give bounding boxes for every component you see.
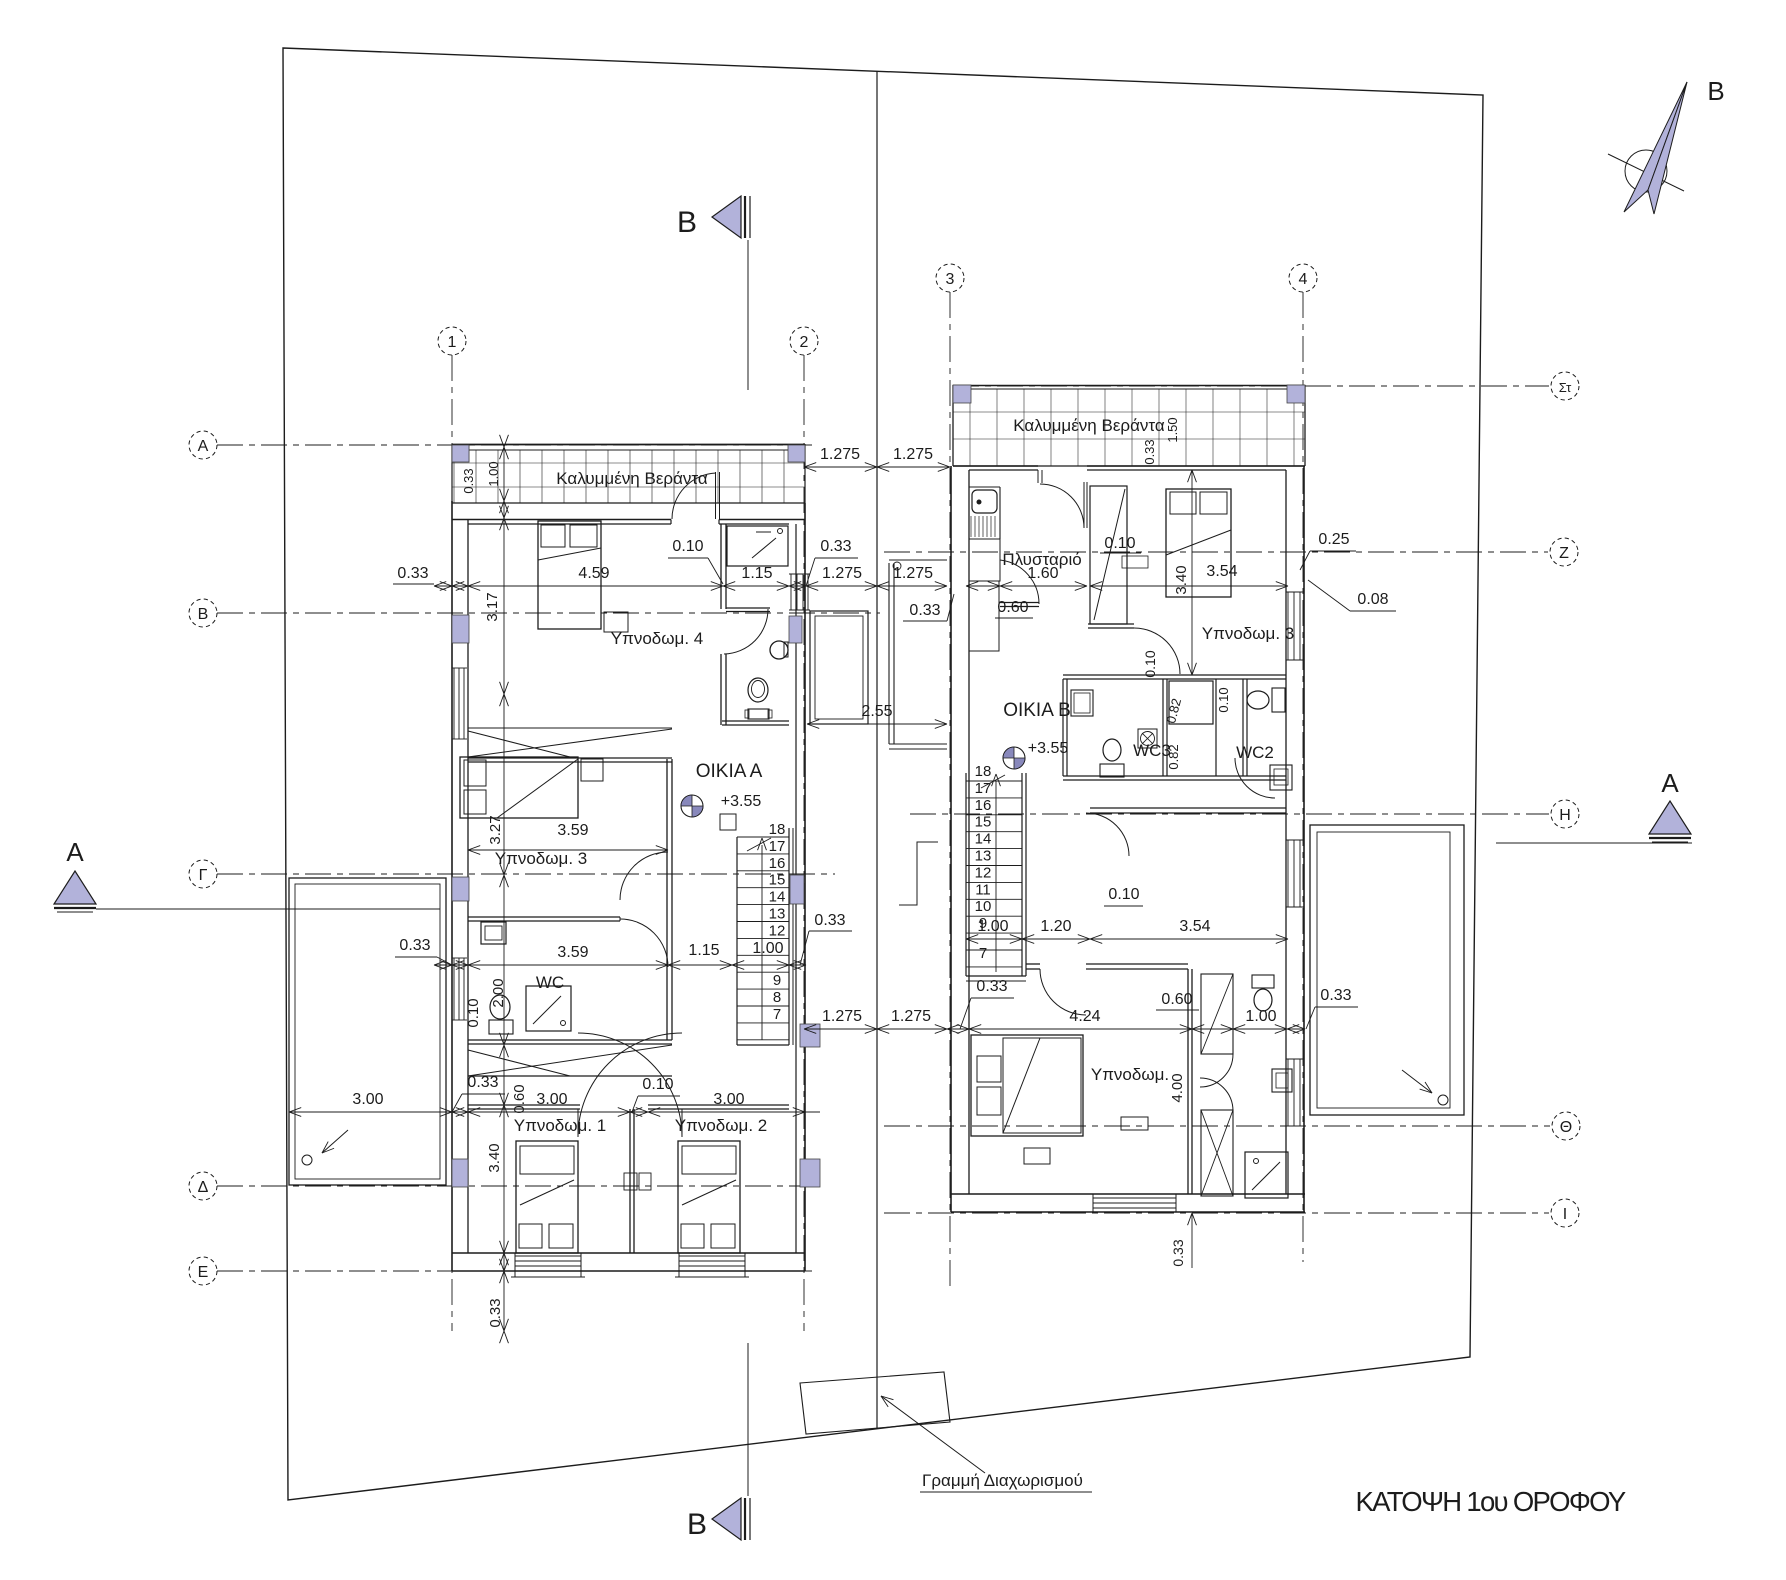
grid line ST horizontal — [953, 385, 1549, 387]
svg-text:Υπνοδωμ. 1: Υπνοδωμ. 1 — [514, 1116, 606, 1135]
svg-text:0.33: 0.33 — [814, 912, 845, 929]
svg-text:1.15: 1.15 — [741, 565, 772, 582]
svg-text:0.60: 0.60 — [511, 1084, 528, 1113]
wc A north wall + door — [468, 916, 620, 918]
grid bubble 3 — [936, 264, 964, 292]
svg-text:Καλυμμένη Βεράντα: Καλυμμένη Βεράντα — [1013, 416, 1165, 435]
sink bath A — [770, 641, 788, 659]
svg-text:Β: Β — [198, 606, 209, 623]
svg-text:7: 7 — [979, 945, 987, 962]
grid line 3 vertical — [949, 292, 951, 1290]
stairs B arrow — [995, 781, 997, 972]
svg-text:0.10: 0.10 — [672, 538, 703, 555]
svg-text:13: 13 — [769, 906, 786, 923]
wardrobe hall B — [1090, 486, 1127, 624]
svg-text:2.00: 2.00 — [490, 978, 507, 1007]
dim row gap mid 1.275+1.275 — [806, 585, 947, 587]
sink WC3 — [1071, 690, 1093, 716]
grid bubble E — [189, 1257, 217, 1285]
column A veranda left — [452, 445, 469, 462]
svg-text:Υπνοδωμ. 2: Υπνοδωμ. 2 — [675, 1116, 767, 1135]
svg-text:Υπνοδωμ. 4: Υπνοδωμ. 4 — [611, 629, 703, 648]
hall A wall above rooms 1-2 — [468, 1104, 580, 1106]
svg-text:18: 18 — [769, 821, 786, 838]
wc area B top wall — [1063, 674, 1286, 676]
nightstand bed3 A — [581, 759, 603, 781]
grid line Z horizontal — [884, 551, 1548, 553]
closet lower B — [1201, 1110, 1233, 1196]
svg-text:0.33: 0.33 — [467, 1074, 498, 1091]
dim row top gap 1.275+1.275 — [804, 466, 950, 468]
wall B north + door — [953, 465, 1038, 467]
bath hall wall + door — [726, 607, 770, 609]
svg-text:B: B — [677, 206, 697, 239]
bed bottom B — [971, 1035, 1083, 1136]
window A west wall upper — [453, 668, 455, 739]
wc room A walls — [722, 720, 789, 722]
column B veranda left — [953, 385, 971, 403]
svg-text:3.54: 3.54 — [1206, 563, 1237, 580]
shower WC3 — [1169, 681, 1213, 724]
svg-text:A: A — [66, 837, 84, 867]
wardrobe shelf — [1122, 556, 1148, 568]
wall B grid H + door — [1090, 807, 1286, 809]
window A east wall — [790, 574, 792, 610]
laundry cabinets — [969, 539, 1000, 581]
stairs A arrow — [761, 845, 763, 1040]
svg-text:WC: WC — [536, 973, 564, 992]
division marker rectangle — [800, 1372, 950, 1434]
vertical dim line A left — [503, 447, 505, 1331]
division line (Γραμμή Διαχωρισμού) — [876, 71, 878, 1429]
svg-text:1.00: 1.00 — [752, 940, 783, 957]
svg-text:1: 1 — [448, 334, 457, 351]
level marker +3.55 A — [681, 795, 703, 817]
svg-text:WC2: WC2 — [1236, 743, 1274, 762]
svg-text:17: 17 — [975, 780, 992, 797]
veranda B tile hatch — [969, 389, 971, 466]
fan symbol WC3 — [1138, 729, 1157, 748]
small mark bed B foot — [1024, 1148, 1050, 1164]
laundry hall door — [1000, 602, 1039, 604]
svg-text:1.50: 1.50 — [1165, 417, 1180, 442]
level marker +3.55 B — [1003, 747, 1025, 769]
dim 3.59 bed3 row — [468, 849, 668, 851]
wall B above bedroom bottom — [1026, 963, 1040, 965]
svg-text:3.17: 3.17 — [484, 592, 501, 621]
svg-text:0.25: 0.25 — [1318, 531, 1349, 548]
wardrobe band above rooms 1-2 — [468, 1045, 672, 1076]
grid line A horizontal — [217, 444, 812, 446]
grid line 4 vertical — [1302, 292, 1304, 1262]
shower bath B bottom — [1245, 1152, 1288, 1198]
window B east wall lower — [1287, 1059, 1289, 1126]
svg-text:0.10: 0.10 — [642, 1076, 673, 1093]
grid line Theta horizontal — [884, 1125, 1550, 1127]
svg-text:4.00: 4.00 — [1169, 1073, 1186, 1102]
svg-text:Θ: Θ — [1560, 1119, 1572, 1136]
partition rooms1-2 A — [629, 1109, 631, 1253]
grid line 1 vertical — [451, 355, 453, 1331]
grid bubble 2 — [790, 327, 818, 355]
svg-text:ΟΙΚΙΑ Α: ΟΙΚΙΑ Α — [696, 761, 763, 782]
grid bubble Z — [1550, 538, 1578, 566]
svg-text:0.08: 0.08 — [1357, 591, 1388, 608]
svg-text:0.10: 0.10 — [1108, 886, 1139, 903]
column B veranda right — [1287, 385, 1305, 403]
partition bath A west — [720, 524, 722, 609]
double door arcs rooms 1-2 A — [578, 1033, 682, 1137]
wc A east wall — [666, 917, 668, 1040]
threshold squares rooms1-2 — [624, 1173, 637, 1190]
svg-text:B: B — [687, 1508, 707, 1541]
svg-text:0.60: 0.60 — [1161, 991, 1192, 1008]
columns building A — [452, 445, 469, 462]
wall A north (top) — [452, 519, 671, 521]
grid bubble Theta — [1552, 1112, 1580, 1140]
svg-text:0.10: 0.10 — [465, 998, 482, 1027]
grid bubble Delta — [189, 1172, 217, 1200]
sink bath B bottom — [1272, 1069, 1292, 1092]
balcony A west — [289, 878, 446, 1185]
svg-text:+3.55: +3.55 — [721, 793, 762, 810]
walkway B entry — [888, 563, 890, 744]
svg-text:8: 8 — [773, 989, 781, 1006]
svg-text:Ζ: Ζ — [1559, 545, 1569, 562]
veranda A outline — [452, 444, 805, 446]
svg-text:Δ: Δ — [198, 1179, 209, 1196]
svg-text:13: 13 — [975, 848, 992, 865]
grid line Delta horizontal — [217, 1185, 812, 1187]
svg-text:2: 2 — [800, 334, 809, 351]
grid bubble 4 — [1289, 264, 1317, 292]
door arc bed3 A — [620, 852, 668, 900]
svg-text:3: 3 — [946, 271, 955, 288]
toilet wc-room A — [748, 678, 768, 702]
svg-text:0.33: 0.33 — [820, 538, 851, 555]
door arcs bath B — [1200, 1054, 1233, 1087]
door arc veranda A — [672, 473, 716, 519]
door arc bedroom B bottom — [1040, 969, 1086, 1015]
svg-text:B: B — [1707, 76, 1724, 106]
grid bubble B — [189, 599, 217, 627]
dim 3.40 bed3 B — [1191, 470, 1193, 675]
svg-text:3.40: 3.40 — [486, 1143, 503, 1172]
bed Υπνοδωμ.3 B — [1166, 489, 1231, 597]
svg-text:0.10: 0.10 — [1142, 650, 1158, 677]
wall B south with window — [951, 1193, 1305, 1195]
svg-text:0.82: 0.82 — [1166, 744, 1181, 769]
column A veranda right — [788, 445, 805, 462]
svg-text:3.59: 3.59 — [557, 822, 588, 839]
svg-text:0.33: 0.33 — [1142, 439, 1157, 464]
dim row A mid wc — [434, 964, 806, 966]
bed Υπνοδωμ.1 — [516, 1141, 578, 1253]
door arc WC2 — [1235, 758, 1275, 798]
svg-text:0.33: 0.33 — [1170, 1239, 1186, 1266]
sink wc A — [481, 922, 506, 944]
svg-text:3.54: 3.54 — [1179, 918, 1210, 935]
grid bubble H — [1551, 800, 1579, 828]
svg-text:10: 10 — [975, 898, 992, 915]
svg-text:Υπνοδωμ. 3: Υπνοδωμ. 3 — [1202, 624, 1294, 643]
svg-text:ΚΑΤΟΨΗ 1ου ΟΡΟΦΟΥ: ΚΑΤΟΨΗ 1ου ΟΡΟΦΟΥ — [1355, 1486, 1625, 1517]
threshold marker grid Theta B — [1121, 1117, 1148, 1130]
svg-text:4: 4 — [1299, 271, 1308, 288]
shower wc A — [526, 986, 571, 1031]
wc area B partitions — [1062, 679, 1064, 776]
balcony B door arrow — [1402, 1070, 1432, 1093]
svg-text:0.33: 0.33 — [399, 937, 430, 954]
laundry sink B — [969, 486, 1000, 488]
svg-text:11: 11 — [975, 881, 991, 898]
svg-text:14: 14 — [769, 889, 786, 906]
svg-text:1.00: 1.00 — [1245, 1008, 1276, 1025]
wall B west — [950, 466, 952, 1212]
property boundary — [283, 48, 1483, 1500]
svg-text:14: 14 — [975, 831, 992, 848]
svg-text:9: 9 — [773, 972, 781, 989]
dim 1.60 laundry — [966, 585, 1087, 587]
svg-text:3.00: 3.00 — [352, 1091, 383, 1108]
svg-text:2.55: 2.55 — [861, 703, 892, 720]
svg-text:18: 18 — [975, 763, 992, 780]
dim row B bottom — [804, 1028, 1305, 1030]
section mark B top — [712, 196, 741, 238]
svg-text:Α: Α — [198, 438, 209, 455]
section mark A right — [1649, 801, 1691, 834]
wall A east — [804, 503, 806, 1271]
window B east wall mid — [1287, 592, 1289, 660]
grid line B horizontal — [217, 612, 880, 614]
svg-text:15: 15 — [769, 872, 786, 889]
svg-text:16: 16 — [769, 855, 786, 872]
svg-text:15: 15 — [975, 814, 992, 831]
grid bubble ST — [1551, 372, 1579, 400]
veranda A tile hatch — [453, 450, 455, 503]
grid line I horizontal — [884, 1212, 1549, 1214]
dim row A bottom 3x3.00 — [289, 1111, 820, 1113]
svg-text:12: 12 — [975, 864, 992, 881]
svg-text:4.24: 4.24 — [1069, 1008, 1100, 1025]
balcony B east — [1310, 825, 1464, 1115]
svg-text:1.20: 1.20 — [1040, 918, 1071, 935]
column stairs A bottom — [800, 1024, 820, 1047]
svg-text:Ε: Ε — [198, 1264, 209, 1281]
dim row A top — [434, 585, 806, 587]
closet upper B — [1201, 974, 1233, 1054]
svg-text:1.275: 1.275 — [893, 565, 933, 582]
svg-text:0.10: 0.10 — [1104, 535, 1135, 552]
grid bubble Gamma — [189, 860, 217, 888]
svg-text:Γ: Γ — [199, 867, 208, 884]
svg-text:+3.55: +3.55 — [1028, 740, 1069, 757]
svg-text:Ι: Ι — [1563, 1206, 1567, 1223]
bed Υπνοδωμ.2 — [678, 1141, 740, 1253]
svg-text:1.15: 1.15 — [688, 942, 719, 959]
svg-text:12: 12 — [769, 922, 786, 939]
shower bath A — [727, 526, 788, 566]
dim 2.55 gap — [807, 723, 947, 725]
wall bed3/hall A — [666, 759, 668, 917]
svg-text:Γραμμή Διαχωρισμού: Γραμμή Διαχωρισμού — [922, 1471, 1083, 1490]
toilet bath B bottom — [1252, 975, 1274, 988]
svg-text:7: 7 — [773, 1006, 781, 1023]
wardrobe wall between bed4 and bed3 — [468, 727, 672, 729]
svg-text:Καλυμμένη Βεράντα: Καλυμμένη Βεράντα — [556, 469, 708, 488]
svg-text:0.33: 0.33 — [487, 1298, 504, 1327]
svg-text:Στ: Στ — [1559, 380, 1572, 395]
svg-text:0.33: 0.33 — [976, 978, 1007, 995]
svg-text:4.59: 4.59 — [578, 565, 609, 582]
svg-text:ΟΙΚΙΑ Β: ΟΙΚΙΑ Β — [1003, 700, 1071, 721]
grid bubble A — [189, 431, 217, 459]
toilet WC2 — [1247, 691, 1269, 709]
svg-text:0.33: 0.33 — [1320, 987, 1351, 1004]
grid line E horizontal — [217, 1270, 812, 1272]
svg-text:0.33: 0.33 — [397, 565, 428, 582]
veranda B outline — [953, 385, 1305, 387]
wc area B bottom wall — [1063, 775, 1286, 777]
stairs B dim row — [966, 938, 1288, 940]
svg-text:3.00: 3.00 — [536, 1091, 567, 1108]
step polyline near division — [899, 842, 938, 905]
svg-text:1.275: 1.275 — [822, 1008, 862, 1025]
landing between houses — [810, 611, 868, 724]
bed Υπνοδωμ.3 A — [460, 757, 578, 818]
stairs A — [736, 837, 738, 1045]
toilet wc A — [490, 995, 510, 1019]
svg-text:3.27: 3.27 — [487, 815, 504, 844]
wall A west — [451, 501, 453, 1271]
bed Υπνοδωμ.4 — [538, 521, 601, 629]
svg-text:1.60: 1.60 — [1027, 565, 1058, 582]
svg-text:1.275: 1.275 — [891, 1008, 931, 1025]
svg-text:3.00: 3.00 — [713, 1091, 744, 1108]
grid line Gamma horizontal — [217, 873, 835, 875]
bed3 B door wall + arc — [1088, 623, 1134, 625]
stairs B — [965, 773, 967, 976]
svg-text:3.40: 3.40 — [1173, 565, 1190, 594]
svg-text:A: A — [1661, 768, 1679, 798]
wall B east — [1303, 466, 1305, 1212]
door leaf + arc veranda B — [1037, 470, 1039, 483]
grid line 2 vertical — [803, 355, 805, 1331]
svg-text:Υπνοδωμ.: Υπνοδωμ. — [1091, 1065, 1169, 1084]
svg-text:16: 16 — [975, 797, 992, 814]
svg-text:1.275: 1.275 — [893, 446, 933, 463]
grid bubble I — [1551, 1199, 1579, 1227]
dim 3.54 bed3 B row — [1090, 585, 1288, 587]
svg-text:1.275: 1.275 — [822, 565, 862, 582]
sink WC2 — [1270, 765, 1292, 790]
bedside table bed4 — [604, 612, 628, 632]
section mark A left — [54, 871, 96, 904]
svg-text:0.10: 0.10 — [1216, 687, 1231, 712]
section mark B bottom — [712, 1498, 741, 1540]
svg-text:1.00: 1.00 — [486, 461, 501, 486]
interior wall B bath corridor — [1187, 969, 1189, 1194]
svg-text:1.275: 1.275 — [820, 446, 860, 463]
svg-text:Η: Η — [1559, 807, 1571, 824]
window B east wall upper — [1287, 840, 1289, 907]
grid line H horizontal — [910, 813, 1549, 815]
door leaf veranda A — [715, 472, 717, 519]
north arrow — [1625, 150, 1667, 192]
grid bubble 1 — [438, 327, 466, 355]
toilet WC3 — [1103, 739, 1121, 761]
svg-text:0.60: 0.60 — [997, 599, 1028, 616]
wc A south wall — [468, 1039, 672, 1041]
window A west wall lower — [453, 958, 455, 1020]
svg-text:1.00: 1.00 — [977, 918, 1008, 935]
svg-text:0.33: 0.33 — [909, 602, 940, 619]
wall A south (bottom) with windows — [452, 1252, 805, 1254]
svg-text:17: 17 — [769, 838, 786, 855]
svg-text:0.33: 0.33 — [461, 468, 476, 493]
balcony A door arrow — [322, 1130, 348, 1153]
svg-text:Υπνοδωμ. 3: Υπνοδωμ. 3 — [495, 849, 587, 868]
svg-text:3.59: 3.59 — [557, 944, 588, 961]
